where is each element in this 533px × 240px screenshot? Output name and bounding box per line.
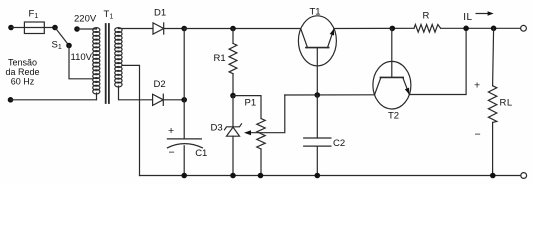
transistor T1: [298, 16, 336, 95]
node R1 bottom: [230, 93, 236, 99]
node D1 cathode: [181, 26, 187, 32]
diode D1: [153, 23, 164, 34]
node T1 base / C2: [315, 92, 321, 98]
svg-text:−: −: [475, 129, 481, 141]
load RL: [488, 28, 496, 175]
input terminal bottom: [8, 97, 14, 103]
svg-text:220V: 220V: [74, 14, 97, 25]
switch S1 contact node: [66, 43, 72, 49]
svg-text:−: −: [169, 147, 175, 159]
wire top rail D1 to T1: [184, 28, 301, 30]
wire D1 to node: [164, 28, 185, 30]
zener D3: [225, 96, 242, 176]
node 220V tap: [74, 26, 80, 32]
capacitor C1: [167, 139, 202, 176]
node R1 top: [230, 26, 236, 32]
svg-text:D2: D2: [154, 79, 166, 90]
svg-text:P1: P1: [245, 98, 257, 109]
node RL top: [491, 26, 497, 32]
wire bottom rail: [140, 175, 521, 177]
transformer T1 primary winding: [93, 28, 100, 94]
input terminal top: [8, 25, 14, 31]
output terminal top: [521, 25, 527, 31]
wire R to terminal: [441, 27, 521, 29]
resistor R1: [229, 29, 237, 96]
svg-text:+: +: [168, 125, 174, 137]
output terminal bottom: [521, 173, 527, 179]
svg-text:110V: 110V: [71, 52, 93, 63]
capacitor C2: [304, 95, 331, 176]
svg-text:R1: R1: [214, 53, 226, 64]
svg-text:T1: T1: [104, 9, 114, 21]
fuse F1: [24, 22, 55, 34]
node T2 base top: [390, 26, 396, 32]
svg-text:S1: S1: [52, 40, 62, 52]
transformer T1 secondary winding: [115, 28, 122, 87]
svg-text:60 Hz: 60 Hz: [11, 77, 35, 87]
wire base node row: [285, 94, 375, 96]
wire D2 to node: [163, 99, 184, 101]
transistor T2: [373, 29, 411, 110]
wire: [11, 27, 24, 29]
wire T2 emitter to IL node: [409, 28, 466, 94]
label Tensao da Rede 60 Hz: [5, 58, 39, 87]
svg-text:+: +: [474, 80, 480, 92]
node IL: [463, 26, 469, 32]
svg-text:da Rede: da Rede: [5, 67, 39, 77]
node D3 bottom: [230, 173, 236, 179]
P1 wiper arrow: [244, 95, 285, 135]
wire bottom input to primary: [11, 93, 97, 100]
node P1 bottom: [258, 173, 264, 179]
wire 220V tap to primary top: [77, 28, 97, 29]
svg-text:T2: T2: [388, 111, 399, 122]
node RL bottom: [490, 173, 496, 179]
wire secondary bottom to D2: [119, 86, 153, 100]
wire rectifier bus: [183, 29, 185, 100]
wire secondary top to D1: [118, 28, 153, 30]
svg-text:D1: D1: [154, 8, 166, 19]
wire T1 emitter to rail: [334, 27, 414, 29]
svg-text:F1: F1: [29, 9, 39, 21]
diode D2: [153, 94, 164, 105]
wire 110V tap: [69, 46, 93, 79]
transformer core: [106, 24, 109, 103]
node C1 bottom: [181, 173, 187, 179]
wire bus to C1: [183, 100, 185, 139]
svg-text:C2: C2: [333, 138, 345, 149]
svg-text:R: R: [423, 11, 430, 22]
svg-text:IL: IL: [463, 12, 472, 23]
node after fuse: [52, 25, 58, 31]
potentiometer P1: [233, 96, 265, 176]
IL arrow: [476, 11, 494, 16]
svg-text:D3: D3: [211, 123, 223, 134]
switch S1 blade: [55, 28, 69, 46]
wire secondary center tap: [122, 65, 140, 175]
node C2 bottom: [315, 173, 321, 179]
resistor R: [414, 25, 441, 33]
svg-text:C1: C1: [195, 148, 207, 159]
svg-text:Tensão: Tensão: [8, 58, 37, 68]
svg-text:T1: T1: [310, 7, 321, 18]
svg-text:RL: RL: [500, 98, 513, 109]
node D2 cathode: [181, 97, 187, 103]
